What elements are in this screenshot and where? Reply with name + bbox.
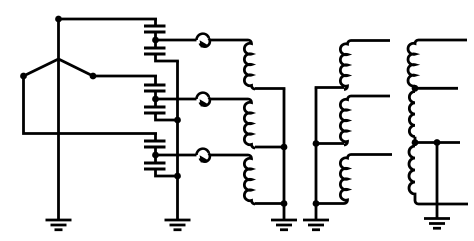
wire tap1 terminal — [415, 87, 458, 90]
wire cell3 tap to probe P3 — [156, 154, 197, 157]
node chain tap2 — [412, 139, 419, 146]
inductor L1 primary winding — [244, 40, 255, 89]
node rail-cell3 junction — [174, 173, 181, 180]
wire cell1 tap to probe P1 — [156, 39, 197, 42]
wire cell2 mid stub — [154, 91, 157, 107]
wire cell3 bottom jog to rail — [156, 169, 179, 176]
wire tap2 terminal — [415, 141, 460, 144]
inductor L8 tertiary winding middle — [409, 92, 415, 137]
inductor L2 primary winding — [244, 99, 255, 148]
current probe P1 — [197, 34, 209, 40]
wire star diagonal to right phase — [59, 59, 94, 76]
wire L4 bottom to secondary rail — [315, 86, 344, 89]
current probe P3 — [197, 149, 209, 155]
node chain tap1 — [412, 85, 419, 92]
node cell1 midpoint tap — [152, 37, 159, 44]
inductor L6 secondary winding — [340, 155, 392, 204]
node cell3 midpoint tap — [152, 152, 159, 159]
ground G5 — [424, 219, 450, 229]
capacitor C2b (lower) — [144, 107, 166, 113]
inductor L5 secondary winding — [340, 96, 390, 145]
wire probe P3 to primary L3 — [210, 154, 248, 157]
inductor L9 tertiary winding bottom — [409, 146, 468, 204]
ground G4 — [303, 220, 329, 230]
wire L5 bottom to secondary rail — [315, 142, 344, 145]
wire star diagonal to left phase — [24, 59, 59, 76]
wire cell3 entry stub — [154, 134, 157, 142]
wire cell1 entry stub — [154, 19, 157, 26]
wire tap2 rail to ground G5 — [436, 143, 439, 219]
wire right phase to cell2 — [93, 75, 157, 78]
current probe P2 — [197, 93, 209, 99]
wire N1 to cell1 top — [59, 18, 158, 21]
inductor L3 primary winding — [244, 155, 255, 204]
wire cell2 tap to probe P2 — [156, 98, 197, 101]
wire cell1 bottom jog to rail — [156, 54, 179, 61]
wire cell2 entry stub — [154, 76, 157, 85]
ground G1 — [46, 220, 72, 230]
capacitor C2a (upper) — [144, 85, 166, 91]
wire chain tap2 stub — [414, 137, 417, 146]
capacitor C3b (lower) — [144, 163, 166, 169]
wire left phase down and right to cell3 — [24, 76, 158, 134]
ground G2 — [165, 220, 191, 230]
wire primary common rail — [283, 89, 286, 204]
wire cell common rail to ground G2 — [176, 61, 179, 220]
wire cell3 mid stub — [154, 147, 157, 163]
node rail-L2 junction — [281, 144, 288, 151]
node N3 right phase — [90, 73, 97, 80]
wire L1 bottom to primary rail — [255, 87, 285, 90]
wire probe P2 to primary L2 — [210, 98, 248, 101]
wire star point to ground G1 — [57, 59, 60, 220]
wire secondary common rail — [315, 88, 318, 204]
node tap2-ground rail junction — [434, 139, 441, 146]
node cell2 midpoint tap — [152, 96, 159, 103]
capacitor C3a (upper) — [144, 141, 166, 147]
capacitor C1a (upper) — [144, 26, 166, 32]
wire cell1 mid stub — [154, 32, 157, 48]
wire chain tap1 stub — [414, 86, 417, 92]
node N1 top source corner — [55, 16, 62, 23]
wire cell2 bottom jog to rail — [156, 113, 179, 120]
capacitor C1b (lower) — [144, 48, 166, 54]
wire L2 bottom to primary rail — [255, 146, 285, 149]
node rail-L5 junction — [313, 140, 320, 147]
wire probe P1 to primary L1 — [210, 39, 248, 42]
inductor L7 tertiary winding top — [408, 40, 467, 86]
wire secondary rail to ground G4 — [315, 204, 318, 221]
node N2 left phase — [20, 73, 27, 80]
inductor L4 secondary winding — [340, 41, 390, 90]
node rail-L6 junction — [313, 200, 320, 207]
ground G3 — [271, 220, 297, 230]
wire primary rail to ground G3 — [283, 204, 286, 221]
wire L3 bottom to primary rail — [255, 202, 285, 205]
node rail-L3 junction — [281, 200, 288, 207]
wire N1 down to star point — [57, 19, 60, 59]
node rail-cell2 junction — [174, 117, 181, 124]
wire L6 bottom to secondary rail — [315, 202, 344, 205]
